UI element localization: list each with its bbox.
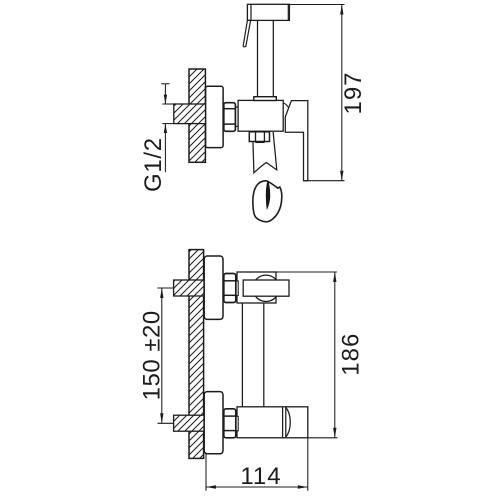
holder circle (253, 275, 279, 301)
wall strip front view (hatched) (189, 250, 204, 459)
escutcheon flange (side view) (206, 86, 224, 147)
sprayer head (247, 4, 289, 20)
svg-text:150 ±20: 150 ±20 (138, 310, 165, 400)
wall connection nut (224, 103, 238, 132)
svg-text:197: 197 (340, 71, 367, 114)
nozzle head front blob (253, 181, 282, 222)
riser collar (254, 97, 276, 101)
lower valve body with cap (237, 407, 308, 438)
dimension 197 (290, 5, 345, 181)
hose nut under body (249, 132, 269, 143)
dimension 114 (206, 438, 308, 491)
dimension 150±20 (158, 288, 174, 423)
column between bodies (242, 303, 263, 407)
handle neck fillet (283, 103, 288, 108)
cap lens arc (286, 407, 291, 437)
lower mounting nut (224, 409, 238, 438)
wall plate side view (hatched) (189, 69, 205, 162)
svg-text:186: 186 (338, 333, 365, 376)
trigger lever (243, 20, 250, 46)
pipe extension ticks (162, 104, 174, 124)
body end line (282, 407, 284, 438)
lower pipe stub (hatched) (174, 415, 204, 431)
hose wand stub with break line (253, 132, 277, 173)
handle lever (side view) (285, 101, 308, 181)
valve body (side view) (238, 100, 283, 131)
upper valve square body (237, 272, 276, 303)
nozzle jet mark (filled) (266, 181, 270, 210)
dimension G1/2 (161, 84, 169, 172)
upper escutcheon (204, 256, 223, 319)
dimension 186 (276, 272, 338, 438)
sprayer riser pipe (258, 20, 274, 96)
svg-text:G1/2: G1/2 (140, 137, 167, 192)
holder bar (243, 280, 289, 296)
svg-text:114: 114 (240, 463, 281, 490)
upper pipe stub (hatched) (174, 280, 204, 296)
upper mounting nut (224, 274, 238, 303)
lower escutcheon (204, 392, 223, 454)
inlet pipe G1/2 (hatched, through wall plate) (174, 104, 206, 124)
